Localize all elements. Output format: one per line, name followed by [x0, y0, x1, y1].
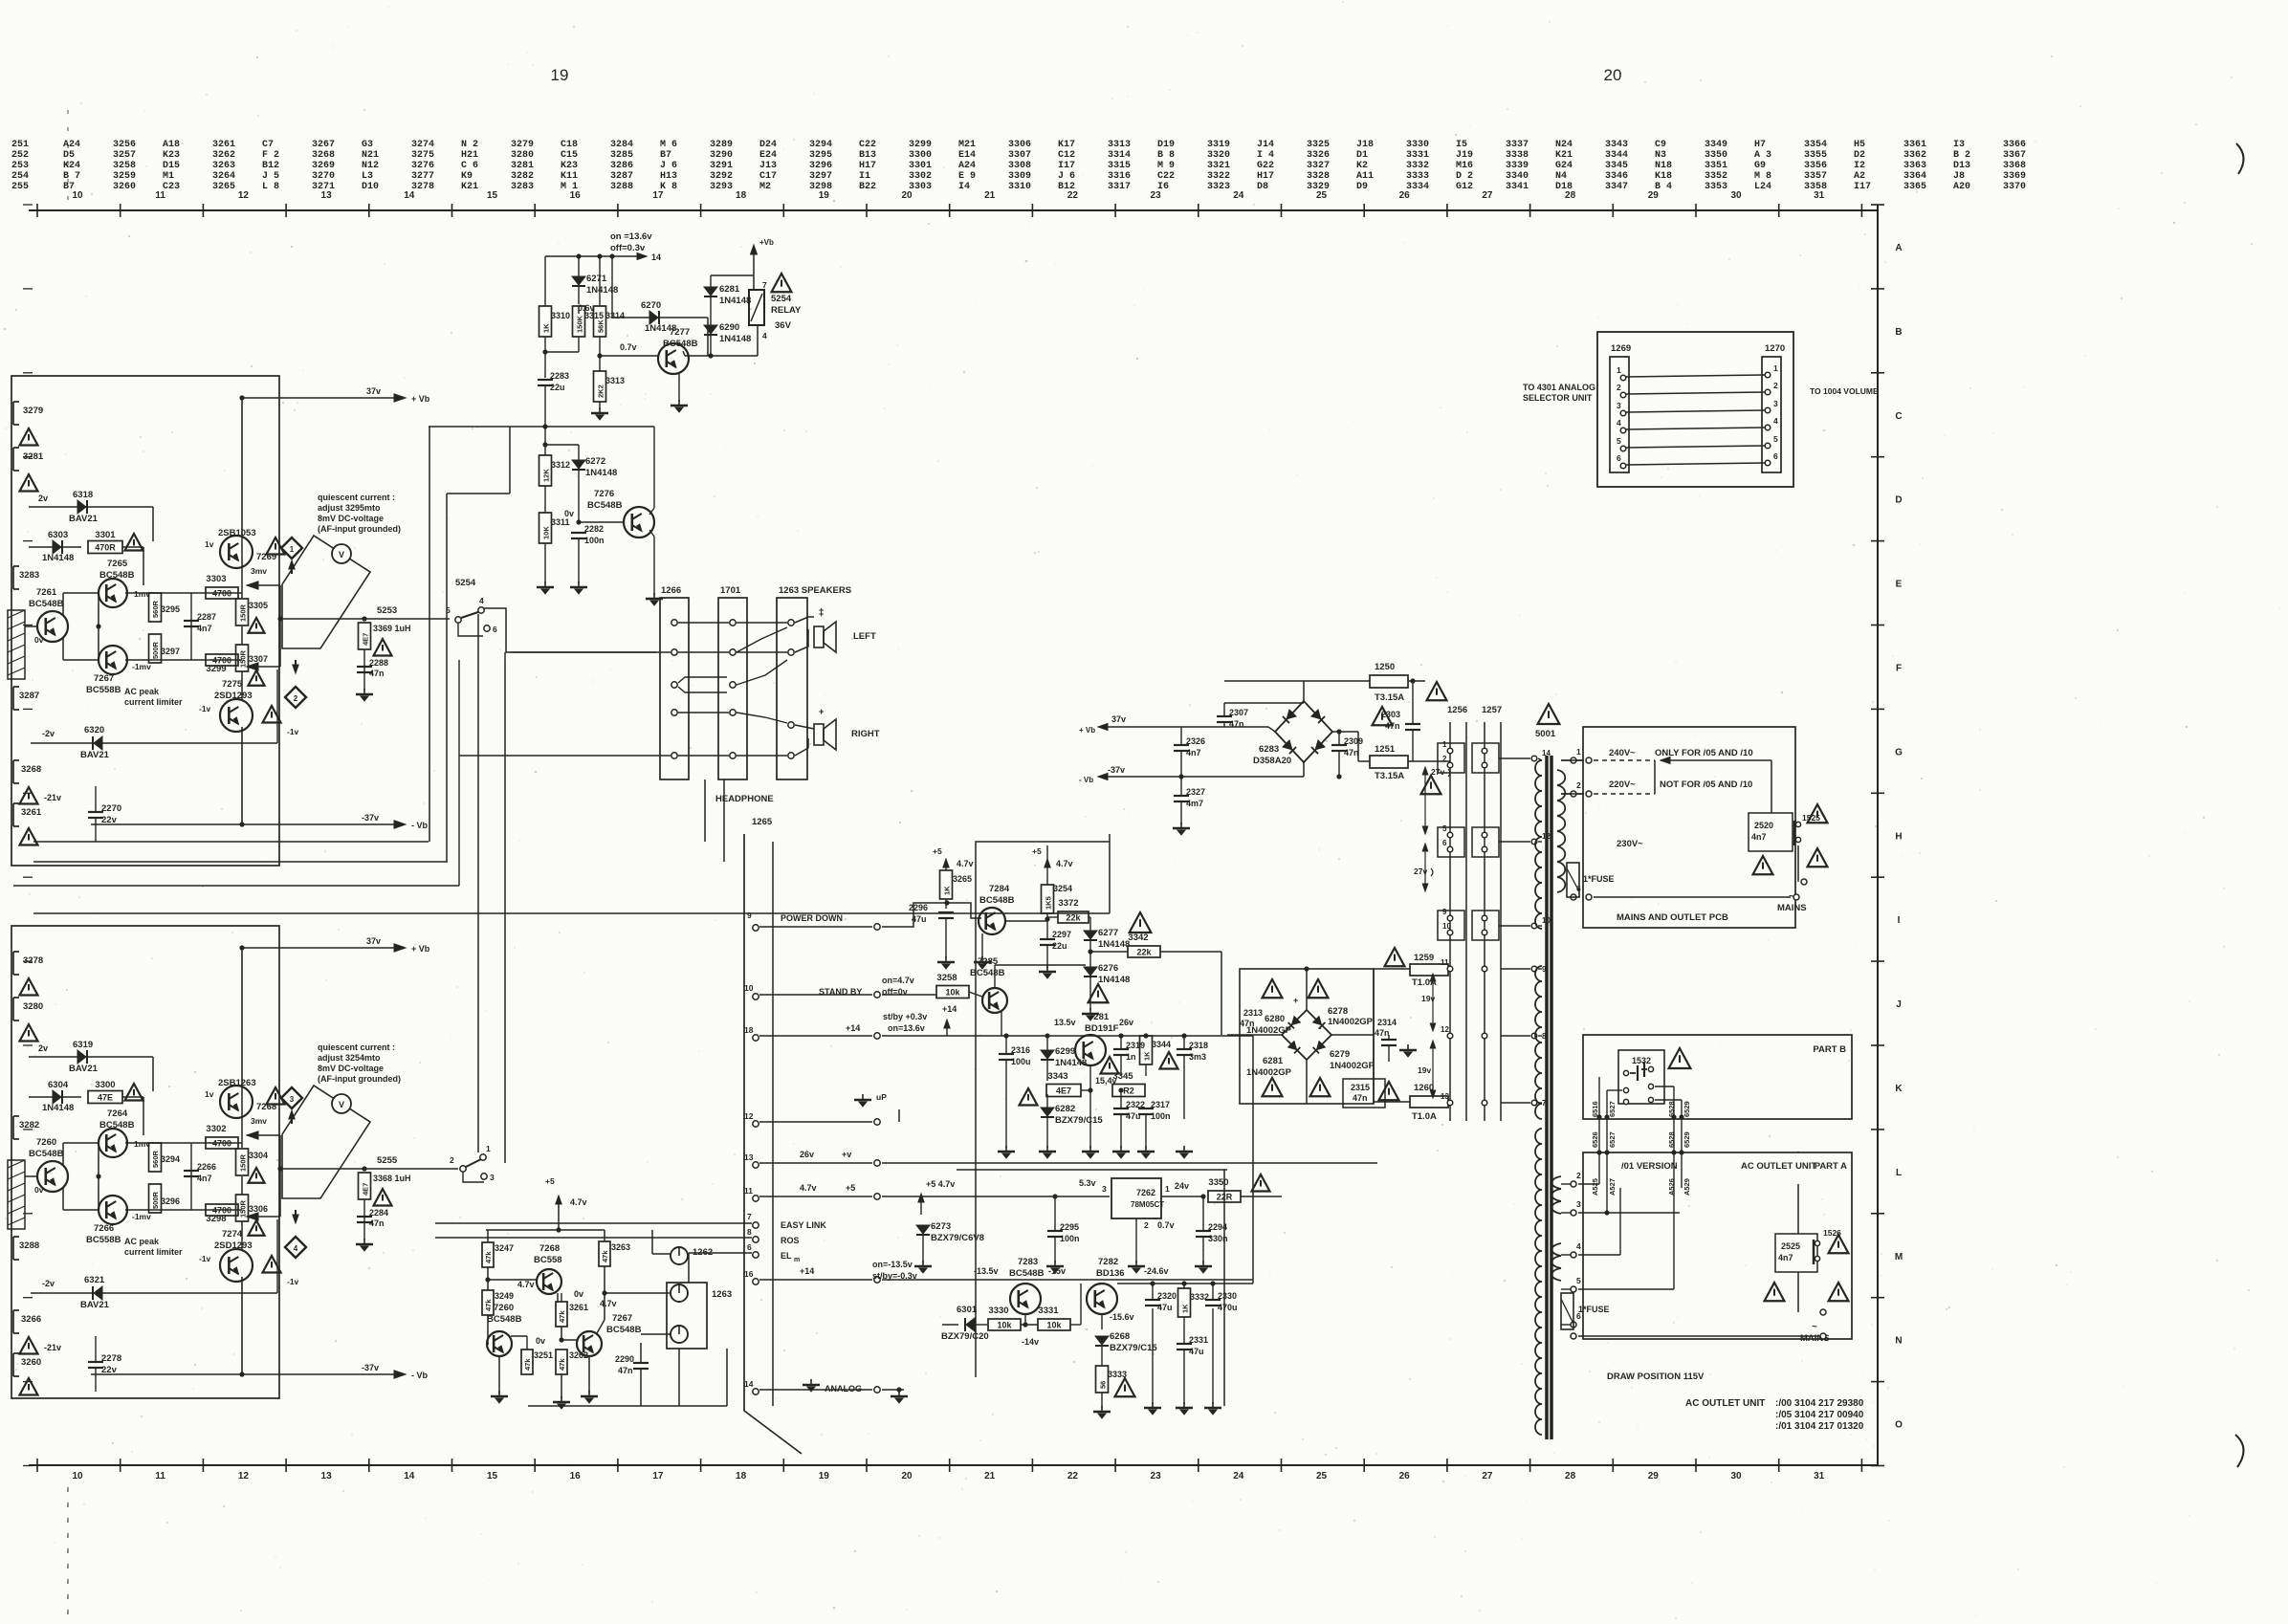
svg-text:2303: 2303	[1381, 710, 1400, 719]
pin 12 ground	[753, 1121, 759, 1127]
svg-text:M 8: M 8	[1754, 171, 1771, 182]
wire headphone block bottom drops	[704, 779, 706, 842]
regulator 7262 78M05CT	[1111, 1178, 1161, 1218]
svg-text:D10: D10	[362, 182, 379, 192]
svg-text:2297: 2297	[1052, 930, 1071, 939]
svg-text:L3: L3	[362, 171, 373, 182]
svg-text:TO 1004 VOLUME: TO 1004 VOLUME	[1810, 386, 1879, 396]
svg-text:B: B	[1895, 327, 1902, 338]
capacitor 2294 330n	[1196, 1230, 1211, 1232]
svg-text:7276: 7276	[594, 489, 614, 499]
svg-text:3: 3	[1102, 1184, 1107, 1194]
svg-text:BAV21: BAV21	[80, 1300, 110, 1310]
svg-text:10k: 10k	[1046, 1321, 1062, 1330]
svg-text:K17: K17	[1058, 140, 1075, 150]
wire -37v rail	[91, 823, 400, 825]
svg-text:3367: 3367	[2003, 150, 2026, 161]
svg-text:4.7v: 4.7v	[957, 859, 974, 868]
svg-text:K24: K24	[63, 161, 80, 171]
resistor 3258 10k	[936, 986, 969, 999]
svg-text:3280: 3280	[511, 150, 534, 161]
grounds relay lower	[544, 543, 546, 583]
svg-text:- Vb: - Vb	[411, 1371, 429, 1380]
svg-text:I5: I5	[1456, 140, 1467, 150]
svg-text:3266: 3266	[21, 1314, 41, 1325]
svg-text:BC548B: BC548B	[587, 500, 623, 511]
zener 6268 BZX79/C15	[1095, 1336, 1109, 1345]
svg-text:1K: 1K	[1181, 1304, 1190, 1313]
resistor 3247	[482, 1242, 494, 1267]
bridge rectifier 6283 D358A20	[1275, 701, 1332, 762]
svg-text:6: 6	[493, 625, 497, 634]
connector stub 3288	[12, 1237, 14, 1260]
svg-text:EASY LINK: EASY LINK	[781, 1220, 826, 1230]
svg-text:28: 28	[1565, 1471, 1576, 1481]
svg-text:0.7v: 0.7v	[1157, 1220, 1175, 1230]
svg-text:9: 9	[747, 911, 752, 920]
part b box outline	[1583, 1035, 1852, 1119]
svg-text:K23: K23	[561, 161, 578, 171]
svg-text:22R: 22R	[1217, 1193, 1233, 1202]
svg-text:6281: 6281	[719, 284, 740, 295]
svg-text:1*FUSE: 1*FUSE	[1583, 874, 1615, 884]
svg-text:11: 11	[155, 1471, 165, 1481]
pin 16 wire -13.5v	[753, 1279, 759, 1284]
svg-text:L: L	[1896, 1168, 1902, 1178]
svg-text:A 3: A 3	[1754, 150, 1771, 161]
svg-text:14: 14	[651, 252, 661, 262]
svg-text:6281: 6281	[1263, 1056, 1284, 1066]
svg-text:2SB1263: 2SB1263	[218, 1078, 256, 1088]
svg-text:O: O	[1895, 1420, 1903, 1431]
svg-text:100n: 100n	[1060, 1234, 1080, 1243]
svg-text:- Vb: - Vb	[1079, 776, 1093, 784]
transistor 7266 BC558B	[99, 1196, 127, 1224]
svg-text:4.7v: 4.7v	[600, 1299, 617, 1308]
diode 6299 1N4148	[1041, 1050, 1054, 1059]
svg-text:18: 18	[736, 190, 747, 201]
svg-text:3279: 3279	[511, 140, 534, 150]
svg-text:19: 19	[819, 1471, 830, 1481]
resistor 3315	[573, 306, 585, 337]
svg-text:3281: 3281	[511, 161, 534, 171]
svg-text:6321: 6321	[84, 1275, 105, 1285]
svg-text:N21: N21	[362, 150, 379, 161]
svg-text:3308: 3308	[1008, 161, 1031, 171]
relay 1532 pins	[1623, 1070, 1628, 1075]
connector stub 3281	[12, 448, 14, 471]
svg-text:19: 19	[551, 66, 569, 84]
wires fuses to connector	[1374, 968, 1410, 970]
svg-text:6272: 6272	[585, 456, 605, 467]
svg-text:D1: D1	[1356, 150, 1368, 161]
svg-text:3343: 3343	[1047, 1071, 1067, 1082]
svg-text:47n: 47n	[618, 1366, 633, 1375]
svg-text:3341: 3341	[1506, 182, 1529, 192]
svg-text:E14: E14	[958, 150, 976, 161]
ac outlet part a box	[1583, 1152, 1852, 1339]
cross-reference table rows 251-255	[11, 140, 2026, 192]
svg-text:3319: 3319	[1207, 140, 1230, 150]
wire -37v rail	[91, 1373, 400, 1375]
svg-text:BZX79/C15: BZX79/C15	[1055, 1115, 1103, 1126]
svg-text:J 6: J 6	[660, 161, 677, 171]
svg-text:6283: 6283	[1259, 744, 1279, 755]
svg-text:3303: 3303	[909, 182, 932, 192]
diode 6272 1N4148	[572, 460, 585, 469]
svg-text:2: 2	[1576, 1171, 1581, 1180]
svg-text:11: 11	[155, 190, 165, 201]
svg-text:3344: 3344	[1605, 150, 1628, 161]
svg-text:-15v: -15v	[1048, 1266, 1066, 1276]
svg-text:3333: 3333	[1406, 171, 1429, 182]
svg-text:D2: D2	[1854, 150, 1865, 161]
svg-text:500R: 500R	[151, 641, 160, 659]
svg-text:3295: 3295	[809, 150, 832, 161]
svg-text:47n: 47n	[1385, 721, 1400, 731]
test point diamond 2	[285, 687, 306, 708]
resistor 3310	[539, 306, 552, 337]
switch 5255 pole ch2	[460, 1166, 466, 1172]
svg-text:7265: 7265	[107, 559, 128, 569]
svg-text:+v: +v	[842, 1150, 851, 1159]
svg-text:-2v: -2v	[42, 1279, 55, 1288]
svg-text:1257: 1257	[1482, 705, 1502, 715]
svg-text:3277: 3277	[411, 171, 434, 182]
svg-text:47u: 47u	[1157, 1303, 1173, 1312]
svg-text:3251: 3251	[534, 1350, 553, 1360]
svg-text:current limiter: current limiter	[124, 1247, 183, 1257]
resistor 3294 560R	[149, 1143, 162, 1172]
svg-text:47n: 47n	[1344, 748, 1359, 757]
capacitor 2282 100n	[571, 532, 586, 534]
svg-text:14: 14	[404, 190, 415, 201]
svg-text:BAV21: BAV21	[69, 514, 99, 524]
svg-text:3300: 3300	[95, 1080, 115, 1090]
svg-text:-14v: -14v	[1022, 1337, 1039, 1347]
svg-text:3284: 3284	[610, 140, 633, 150]
svg-text:3321: 3321	[1207, 161, 1230, 171]
svg-text:D358A20: D358A20	[1253, 756, 1291, 766]
svg-text:7: 7	[747, 1212, 752, 1221]
svg-text:4700: 4700	[212, 589, 231, 599]
svg-text:1n: 1n	[1126, 1052, 1136, 1062]
svg-text:1266: 1266	[661, 585, 681, 596]
svg-text:2330: 2330	[1218, 1291, 1237, 1301]
power transistor 7269	[220, 536, 253, 568]
svg-text:J 5: J 5	[262, 171, 279, 182]
svg-text:7274: 7274	[222, 1229, 243, 1240]
svg-text:J18: J18	[1356, 140, 1374, 150]
svg-text:H7: H7	[1754, 140, 1766, 150]
voltmeter circle	[332, 544, 351, 563]
headphone block pins and wires	[671, 620, 677, 625]
wire switch to speaker feed	[484, 608, 656, 652]
svg-text:1: 1	[1165, 1184, 1170, 1194]
svg-text:6268: 6268	[1110, 1331, 1130, 1342]
svg-text:uP: uP	[876, 1092, 887, 1102]
pin 13 26v	[753, 1162, 759, 1168]
svg-text:16: 16	[744, 1269, 754, 1279]
svg-text:3339: 3339	[1506, 161, 1529, 171]
svg-text:MAINS: MAINS	[1777, 903, 1807, 913]
svg-text:6: 6	[1773, 451, 1778, 461]
wire relay to +Vb arrow	[711, 274, 754, 276]
svg-text:6528: 6528	[1667, 1131, 1676, 1148]
svg-text:+ Vb: + Vb	[1079, 726, 1095, 735]
svg-text:3307: 3307	[1008, 150, 1031, 161]
speaker right row	[788, 722, 794, 728]
svg-text:56K: 56K	[597, 319, 605, 333]
svg-text:3351: 3351	[1705, 161, 1727, 171]
svg-text:47k: 47k	[484, 1251, 493, 1263]
svg-text:+5: +5	[545, 1176, 555, 1186]
wire 26v to supply	[1376, 1036, 1378, 1163]
svg-text:+: +	[819, 605, 824, 615]
svg-text:BZX79/C20: BZX79/C20	[941, 1331, 989, 1342]
svg-text:6276: 6276	[1098, 963, 1118, 974]
fuse 1259 T1.0A	[1385, 948, 1405, 966]
svg-text:2314: 2314	[1377, 1018, 1397, 1027]
capacitor 2309 47n	[1331, 744, 1347, 746]
svg-text:3260: 3260	[113, 182, 136, 192]
svg-text:A: A	[1895, 243, 1902, 253]
bridge 2 warning triangles	[1263, 979, 1283, 998]
resistor 3345 R2	[1112, 1085, 1145, 1097]
svg-text:252: 252	[11, 150, 29, 161]
svg-text:3366: 3366	[2003, 140, 2026, 150]
input shield hatch	[8, 1160, 25, 1229]
svg-text:3261: 3261	[21, 807, 42, 818]
wire base 7277	[600, 355, 658, 357]
svg-text:24: 24	[1233, 190, 1244, 201]
capacitor 2307 47n	[1217, 715, 1232, 717]
svg-text:1N4002GP: 1N4002GP	[1328, 1017, 1374, 1027]
svg-text:1701: 1701	[720, 585, 741, 596]
svg-text::/05 3104 217 00940: :/05 3104 217 00940	[1775, 1410, 1864, 1420]
RCA jacks 1263 box	[667, 1283, 707, 1349]
resistor 3313	[594, 371, 606, 402]
svg-text:20: 20	[901, 190, 913, 201]
resistor 3314	[594, 306, 606, 337]
diode 6273 BZX79/C6V8	[916, 1225, 930, 1234]
svg-text:I1: I1	[859, 171, 870, 182]
svg-text:24: 24	[1233, 1471, 1244, 1481]
svg-text:J8: J8	[1953, 171, 1965, 182]
svg-text:21: 21	[984, 190, 996, 201]
resistor 3295 560R	[149, 593, 162, 622]
svg-text:-21v: -21v	[44, 1343, 61, 1352]
part a wires	[1578, 1183, 1599, 1185]
svg-text:8: 8	[747, 1227, 752, 1237]
resistor 3305 150R	[236, 599, 249, 625]
svg-text:2v: 2v	[38, 1043, 48, 1053]
diode 6270 1N4148	[612, 317, 708, 318]
svg-text:-24.6v: -24.6v	[1144, 1266, 1169, 1276]
svg-text:6320: 6320	[84, 725, 104, 735]
svg-text:3290: 3290	[710, 150, 733, 161]
part a pins	[1571, 1181, 1576, 1187]
connector 1263 speakers outline	[777, 598, 807, 779]
svg-text:D8: D8	[1257, 182, 1268, 192]
power low box outline	[1240, 969, 1374, 1104]
svg-text:2320: 2320	[1157, 1291, 1177, 1301]
svg-text:1N4148: 1N4148	[1098, 975, 1130, 985]
svg-text:2309: 2309	[1344, 736, 1363, 746]
svg-text:3276: 3276	[411, 161, 434, 171]
svg-text:8mV DC-voltage: 8mV DC-voltage	[318, 1064, 384, 1073]
svg-text:3258: 3258	[936, 973, 957, 983]
svg-text:BC548B: BC548B	[979, 895, 1015, 906]
wire 3342 right rail	[1221, 951, 1227, 953]
svg-text:LEFT: LEFT	[853, 631, 876, 642]
svg-text:B 8: B 8	[1157, 150, 1175, 161]
svg-text:4: 4	[1773, 416, 1778, 426]
grounds center bottom	[1005, 1146, 1007, 1152]
svg-text:3327: 3327	[1307, 161, 1330, 171]
svg-text:22k: 22k	[1136, 948, 1152, 957]
connector stub 3261	[12, 803, 14, 826]
headphone bottom row	[671, 753, 677, 758]
svg-text:G22: G22	[1257, 161, 1274, 171]
svg-text:A529: A529	[1683, 1178, 1691, 1196]
svg-text:G: G	[1895, 747, 1903, 757]
connector stub 3283	[12, 566, 14, 589]
svg-text:BD136: BD136	[1096, 1268, 1125, 1279]
svg-text:0v: 0v	[536, 1336, 545, 1346]
svg-text:3247: 3247	[495, 1243, 514, 1253]
svg-text:5: 5	[1773, 434, 1778, 444]
svg-text:H21: H21	[461, 150, 478, 161]
svg-text:2SD1293: 2SD1293	[214, 1240, 253, 1251]
svg-text:G3: G3	[362, 140, 373, 150]
resistor 3350 22R	[1208, 1191, 1241, 1202]
power transistor 7275	[220, 699, 253, 732]
svg-text:A24: A24	[63, 140, 80, 150]
resistor 3330 10k	[988, 1319, 1021, 1330]
wire output node	[241, 536, 243, 598]
svg-text:19: 19	[819, 190, 830, 201]
svg-text:on=4.7v: on=4.7v	[882, 976, 914, 985]
svg-text:330n: 330n	[1208, 1234, 1228, 1243]
svg-text:J: J	[1896, 999, 1902, 1010]
svg-text:4700: 4700	[212, 1139, 231, 1149]
svg-text:3346: 3346	[1605, 171, 1628, 182]
fuse 1251 T3.15A	[1370, 756, 1408, 768]
meter probe polygon	[282, 536, 370, 648]
svg-text:3332: 3332	[1406, 161, 1429, 171]
svg-text:N: N	[1895, 1336, 1902, 1347]
svg-text:3279: 3279	[23, 406, 43, 416]
svg-text:3268: 3268	[21, 764, 41, 775]
pin 14 ANALOG ground	[753, 1389, 759, 1394]
paper speckle	[740, 246, 742, 248]
svg-text:6318: 6318	[73, 490, 93, 500]
svg-text:7264: 7264	[107, 1108, 128, 1119]
svg-text:47k: 47k	[558, 1310, 566, 1323]
svg-text:26: 26	[1399, 1471, 1411, 1481]
svg-text:C12: C12	[1058, 150, 1075, 161]
svg-text:1251: 1251	[1375, 744, 1396, 755]
capacitor 2284 47n	[363, 1199, 365, 1240]
svg-text:23: 23	[1151, 1471, 1162, 1481]
svg-text:3261: 3261	[212, 140, 235, 150]
svg-text:BAV21: BAV21	[80, 750, 110, 760]
svg-text:47k: 47k	[523, 1358, 532, 1371]
svg-text:D15: D15	[163, 161, 180, 171]
svg-text:47n: 47n	[1375, 1028, 1390, 1038]
ground emitter 7284	[981, 933, 983, 958]
transformer warning	[1538, 704, 1560, 724]
svg-text:6: 6	[1617, 453, 1621, 463]
svg-text:3294: 3294	[161, 1154, 180, 1164]
svg-text:2318: 2318	[1189, 1041, 1208, 1050]
svg-text:T3.15A: T3.15A	[1375, 771, 1404, 781]
svg-text:BZX79/C6V8: BZX79/C6V8	[931, 1233, 984, 1243]
wire output to switch	[280, 618, 450, 620]
svg-text:29: 29	[1648, 1471, 1660, 1481]
svg-text:47k: 47k	[601, 1250, 609, 1262]
relay 1532 box	[1618, 1050, 1664, 1104]
transistor 7267 BC558B	[99, 646, 127, 674]
inductor 3368 1uH with resistor 4E7	[359, 1173, 371, 1199]
svg-text:m: m	[794, 1257, 800, 1263]
svg-text:(AF-input grounded): (AF-input grounded)	[318, 524, 401, 534]
svg-text:3291: 3291	[710, 161, 733, 171]
svg-text:25: 25	[1316, 190, 1328, 201]
svg-text:6279: 6279	[1330, 1049, 1350, 1060]
svg-text:56: 56	[1099, 1381, 1108, 1389]
svg-text:D5: D5	[63, 150, 75, 161]
svg-text:27: 27	[1482, 190, 1493, 201]
svg-text:1N4148: 1N4148	[1098, 939, 1130, 950]
wire switch pin4 down to ch2	[477, 614, 479, 1152]
svg-text:3301: 3301	[95, 530, 116, 540]
wire base rail	[98, 1143, 99, 1210]
capacitor 2297 22u	[1040, 938, 1055, 940]
svg-text:RIGHT: RIGHT	[851, 729, 880, 739]
wire +37v rail	[242, 397, 400, 399]
svg-text:2319: 2319	[1126, 1041, 1145, 1050]
svg-text:2295: 2295	[1060, 1222, 1079, 1232]
svg-text:26v: 26v	[800, 1150, 814, 1159]
svg-text:19v: 19v	[1418, 1065, 1431, 1075]
svg-text:3275: 3275	[411, 150, 434, 161]
svg-text:1259: 1259	[1414, 953, 1434, 963]
zener 6282 BZX79/C15	[1041, 1108, 1054, 1116]
svg-text:2287: 2287	[197, 612, 216, 622]
svg-text:24v: 24v	[1175, 1181, 1189, 1191]
svg-text:3310: 3310	[1008, 182, 1031, 192]
svg-text:0v: 0v	[34, 635, 44, 645]
svg-text:22v: 22v	[101, 815, 118, 825]
wire return bus 2	[33, 841, 429, 843]
wire mains out	[1773, 760, 1775, 813]
svg-text:12: 12	[744, 1111, 754, 1121]
svg-text:14: 14	[404, 1471, 415, 1481]
svg-text:5253: 5253	[377, 605, 397, 616]
svg-text:6526: 6526	[1591, 1131, 1599, 1148]
svg-text:3312: 3312	[551, 460, 570, 470]
svg-text:1v: 1v	[205, 1089, 214, 1099]
svg-text:1N4148: 1N4148	[585, 468, 617, 478]
svg-text:2: 2	[450, 1155, 454, 1165]
svg-text:3323: 3323	[1207, 182, 1230, 192]
svg-text:6277: 6277	[1098, 928, 1118, 938]
svg-text:14: 14	[744, 1379, 754, 1389]
svg-text:BD191F: BD191F	[1085, 1023, 1119, 1034]
svg-text:2327: 2327	[1186, 787, 1205, 797]
